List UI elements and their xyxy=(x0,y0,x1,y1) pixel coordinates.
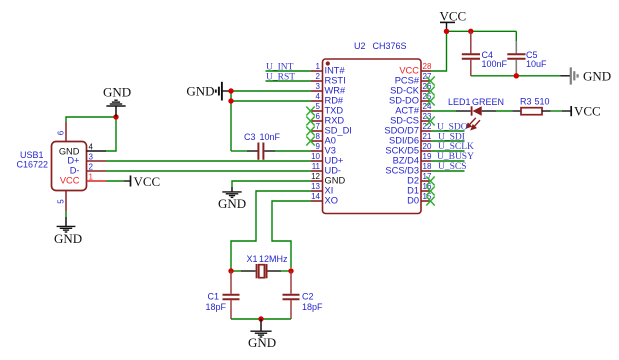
svg-text:SDO/D7: SDO/D7 xyxy=(384,126,419,136)
junction crystal right xyxy=(288,268,293,273)
svg-text:D1: D1 xyxy=(407,186,419,196)
connector USB1 C16722 body xyxy=(17,142,87,191)
U2 pin 28 VCC xyxy=(399,62,432,76)
U2 pin 26 SD-CK xyxy=(390,82,432,96)
sideways ground symbol right of C5 xyxy=(561,67,612,84)
crystal X1 12MHz xyxy=(241,254,288,278)
U2 pin 17 D2 xyxy=(407,172,432,186)
junction C4 top xyxy=(468,29,473,34)
wire U_INT to pin1 xyxy=(266,70,312,72)
U2 pin 20 SCK/D5 xyxy=(385,142,432,156)
junction VCC rail left xyxy=(444,29,449,34)
svg-text:22: 22 xyxy=(423,122,432,131)
IC U2 CH376S body xyxy=(323,41,422,214)
wire USB D- to U2 UD- xyxy=(106,170,311,172)
wire WR# to junction xyxy=(231,90,311,92)
LED emission arrows xyxy=(467,118,481,130)
svg-text:4: 4 xyxy=(89,143,94,152)
svg-text:C2: C2 xyxy=(302,292,314,302)
wire pin4 to GND junction xyxy=(106,117,116,151)
ground symbol above USB (inverted) xyxy=(103,84,131,117)
svg-text:13: 13 xyxy=(311,182,320,191)
U2 pin 8 A0 xyxy=(311,132,336,146)
svg-text:A0: A0 xyxy=(325,136,336,146)
ground symbol below USB xyxy=(54,217,82,246)
wire U_SCS pin18 xyxy=(431,170,465,172)
USB1 pin 1 VCC stub xyxy=(87,173,107,182)
power port VCC at USB pin1 xyxy=(124,174,160,189)
U2 pin 23 SD-CS xyxy=(390,112,432,126)
svg-text:100nF: 100nF xyxy=(482,59,508,69)
svg-text:3: 3 xyxy=(89,153,94,162)
wire RD# to junction xyxy=(231,100,311,102)
svg-text:20: 20 xyxy=(423,142,432,151)
U2 pin 12 GND xyxy=(311,172,345,186)
junction top GND xyxy=(113,114,118,119)
wire C3 to V3 pin9 xyxy=(275,150,311,152)
wire USB D+ to U2 UD+ xyxy=(106,160,311,162)
LED LED1 GREEN xyxy=(448,97,504,129)
wire pin6 riser to GND junction xyxy=(66,117,116,122)
no-connect X marks left pins 5-8 xyxy=(306,107,314,146)
svg-text:BZ/D4: BZ/D4 xyxy=(393,156,419,166)
svg-text:9: 9 xyxy=(316,142,321,151)
svg-text:GND: GND xyxy=(186,83,214,98)
svg-text:6: 6 xyxy=(57,130,66,135)
svg-text:RD#: RD# xyxy=(325,96,344,106)
svg-text:10uF: 10uF xyxy=(526,59,547,69)
wire ACT# pin24 to LED xyxy=(431,110,456,112)
wire pin14 XO to crystal right xyxy=(272,201,311,268)
resistor R3 510 xyxy=(512,97,550,115)
svg-text:SD-CK: SD-CK xyxy=(390,86,420,96)
U2 pin 2 RSTI xyxy=(311,72,346,86)
svg-text:GREEN: GREEN xyxy=(472,97,504,107)
svg-text:XO: XO xyxy=(325,196,338,206)
svg-text:XI: XI xyxy=(325,186,334,196)
svg-text:USB1: USB1 xyxy=(20,150,44,160)
wire USB pin5 to ground xyxy=(65,211,67,217)
svg-text:INT#: INT# xyxy=(325,66,346,76)
wire USB VCC pin to VCC port xyxy=(106,180,124,182)
junction RD# xyxy=(228,98,233,103)
svg-text:U2: U2 xyxy=(354,41,366,51)
svg-text:TXD: TXD xyxy=(325,106,344,116)
svg-text:D0: D0 xyxy=(407,196,419,206)
junction crystal left xyxy=(228,268,233,273)
wire R3 to VCC port xyxy=(551,110,563,112)
svg-text:RXD: RXD xyxy=(325,116,345,126)
wire junction column down to C3 row xyxy=(230,91,232,151)
svg-text:D2: D2 xyxy=(407,176,419,186)
wire pin12 GND to ground xyxy=(232,181,311,187)
svg-text:SD_DI: SD_DI xyxy=(325,126,352,136)
svg-text:GND: GND xyxy=(103,84,131,99)
svg-text:C3: C3 xyxy=(244,132,256,142)
svg-text:UD+: UD+ xyxy=(325,156,344,166)
U2 pin 14 XO xyxy=(311,192,338,206)
wire GND column to C3 xyxy=(231,150,247,152)
svg-text:GND: GND xyxy=(325,176,346,186)
wire decoupling bottom rail xyxy=(471,75,561,77)
svg-text:6: 6 xyxy=(316,112,321,121)
svg-text:10nF: 10nF xyxy=(260,132,281,142)
U2 pin 9 V3 xyxy=(311,142,336,156)
wire crystal right node xyxy=(281,270,291,272)
svg-text:4: 4 xyxy=(316,92,321,101)
ground symbol at pin12 xyxy=(218,187,246,211)
U2 pin 18 SCS/D3 xyxy=(385,162,432,176)
U2 pin 7 SD_DI xyxy=(311,122,352,136)
wire crystal bottom rail xyxy=(231,318,291,320)
svg-text:18: 18 xyxy=(423,162,432,171)
svg-text:8: 8 xyxy=(316,132,321,141)
svg-text:SD-CS: SD-CS xyxy=(390,116,419,126)
capacitor C4 100nF xyxy=(462,31,508,76)
svg-text:GND: GND xyxy=(248,335,276,350)
ground symbol below crystal xyxy=(248,319,276,350)
capacitor C5 10uF xyxy=(507,31,547,76)
capacitor C1 18pF xyxy=(206,271,240,319)
svg-text:GND: GND xyxy=(583,68,611,83)
svg-text:D+: D+ xyxy=(67,155,79,165)
svg-text:RSTI: RSTI xyxy=(325,76,346,86)
U2 pin 25 SD-DO xyxy=(389,92,432,106)
U2 pin 27 PCS# xyxy=(395,72,432,86)
no-connect X marks right pins 27 26 25 23 17 16 15 xyxy=(426,77,434,206)
svg-text:VCC: VCC xyxy=(574,103,601,118)
wire pin13 XI to crystal left xyxy=(231,191,311,268)
svg-text:VCC: VCC xyxy=(60,176,80,186)
U2 pin 1 INT# xyxy=(311,62,345,76)
U2 pin 21 SDI/D6 xyxy=(389,132,432,146)
USB1 pin 4 GND stub xyxy=(87,143,107,152)
U2 pin 19 BZ/D4 xyxy=(393,152,432,166)
svg-text:5: 5 xyxy=(316,102,321,111)
svg-text:WR#: WR# xyxy=(325,86,346,96)
U2 pin 13 XI xyxy=(311,182,333,196)
wire U_SCLK pin20 xyxy=(431,150,465,152)
svg-text:28: 28 xyxy=(423,62,432,71)
U2 pin 11 UD- xyxy=(311,162,341,176)
svg-text:510: 510 xyxy=(535,97,550,107)
svg-text:SCK/D5: SCK/D5 xyxy=(385,146,419,156)
svg-text:V3: V3 xyxy=(325,146,336,156)
wire crystal left node xyxy=(230,268,232,271)
svg-text:GND: GND xyxy=(218,196,246,211)
svg-text:2: 2 xyxy=(89,163,94,172)
svg-text:1: 1 xyxy=(316,62,321,71)
svg-text:C16722: C16722 xyxy=(17,160,49,170)
svg-text:18pF: 18pF xyxy=(302,302,323,312)
svg-text:SCS/D3: SCS/D3 xyxy=(385,166,419,176)
capacitor C3 10nF xyxy=(244,132,281,160)
wire U_SDO pin22 xyxy=(431,130,465,132)
U2 pin 3 WR# xyxy=(311,82,346,96)
junction crystal ground xyxy=(258,316,263,321)
USB1 pin 6 shield stub xyxy=(57,122,67,142)
svg-text:PCS#: PCS# xyxy=(395,76,420,86)
wire U_SDI pin21 xyxy=(431,140,465,142)
svg-text:CH376S: CH376S xyxy=(373,41,407,51)
svg-text:3: 3 xyxy=(316,82,321,91)
USB1 pin 5 shield stub xyxy=(57,191,67,212)
U2 pin 10 UD+ xyxy=(311,152,343,166)
svg-text:5: 5 xyxy=(57,199,66,204)
svg-text:R3: R3 xyxy=(520,97,532,107)
svg-text:VCC: VCC xyxy=(440,9,467,24)
svg-text:10: 10 xyxy=(311,152,320,161)
junction C5 bottom xyxy=(514,73,519,78)
USB1 pin 2 D- stub xyxy=(87,163,107,172)
svg-text:12MHz: 12MHz xyxy=(259,254,288,264)
svg-text:C1: C1 xyxy=(208,292,220,302)
svg-text:GND: GND xyxy=(54,231,82,246)
U2 pin 5 TXD xyxy=(311,102,343,116)
svg-text:X1: X1 xyxy=(247,254,258,264)
svg-text:UD-: UD- xyxy=(325,166,342,176)
U2 pin 16 D1 xyxy=(407,182,432,196)
svg-text:12: 12 xyxy=(311,172,320,181)
svg-text:14: 14 xyxy=(311,192,320,201)
power port VCC top xyxy=(440,9,467,32)
U2 pin 4 RD# xyxy=(311,92,344,106)
svg-text:11: 11 xyxy=(312,162,321,171)
svg-text:ACT#: ACT# xyxy=(395,106,420,116)
USB1 pin 3 D+ stub xyxy=(87,153,107,162)
wire LED to R3 xyxy=(496,110,512,112)
svg-text:24: 24 xyxy=(423,102,432,111)
svg-text:VCC: VCC xyxy=(399,66,419,76)
svg-text:VCC: VCC xyxy=(134,174,161,189)
svg-text:7: 7 xyxy=(316,122,321,131)
junction WR# xyxy=(228,88,233,93)
U2 pin 6 RXD xyxy=(311,112,344,126)
svg-text:SD-DO: SD-DO xyxy=(389,96,419,106)
wire U_RST to pin2 xyxy=(266,80,312,82)
svg-text:1: 1 xyxy=(89,173,94,182)
svg-text:21: 21 xyxy=(423,132,432,141)
U2 pin 22 SDO/D7 xyxy=(384,122,432,136)
svg-text:SDI/D6: SDI/D6 xyxy=(389,136,419,146)
svg-text:2: 2 xyxy=(316,72,321,81)
U2 pin 24 ACT# xyxy=(395,102,432,116)
wire VCC rail to pin28 xyxy=(431,31,447,71)
svg-text:D-: D- xyxy=(70,166,80,176)
power port VCC at R3 xyxy=(562,103,601,118)
wire U_BUSY pin19 xyxy=(431,160,465,162)
wire VCC rail top xyxy=(447,30,517,32)
svg-text:LED1: LED1 xyxy=(448,97,471,107)
capacitor C2 18pF xyxy=(283,271,324,319)
U2 pin 15 D0 xyxy=(407,192,432,206)
svg-text:19: 19 xyxy=(423,152,432,161)
svg-text:18pF: 18pF xyxy=(206,302,227,312)
sideways ground symbol at WR#/RD# xyxy=(186,82,231,101)
